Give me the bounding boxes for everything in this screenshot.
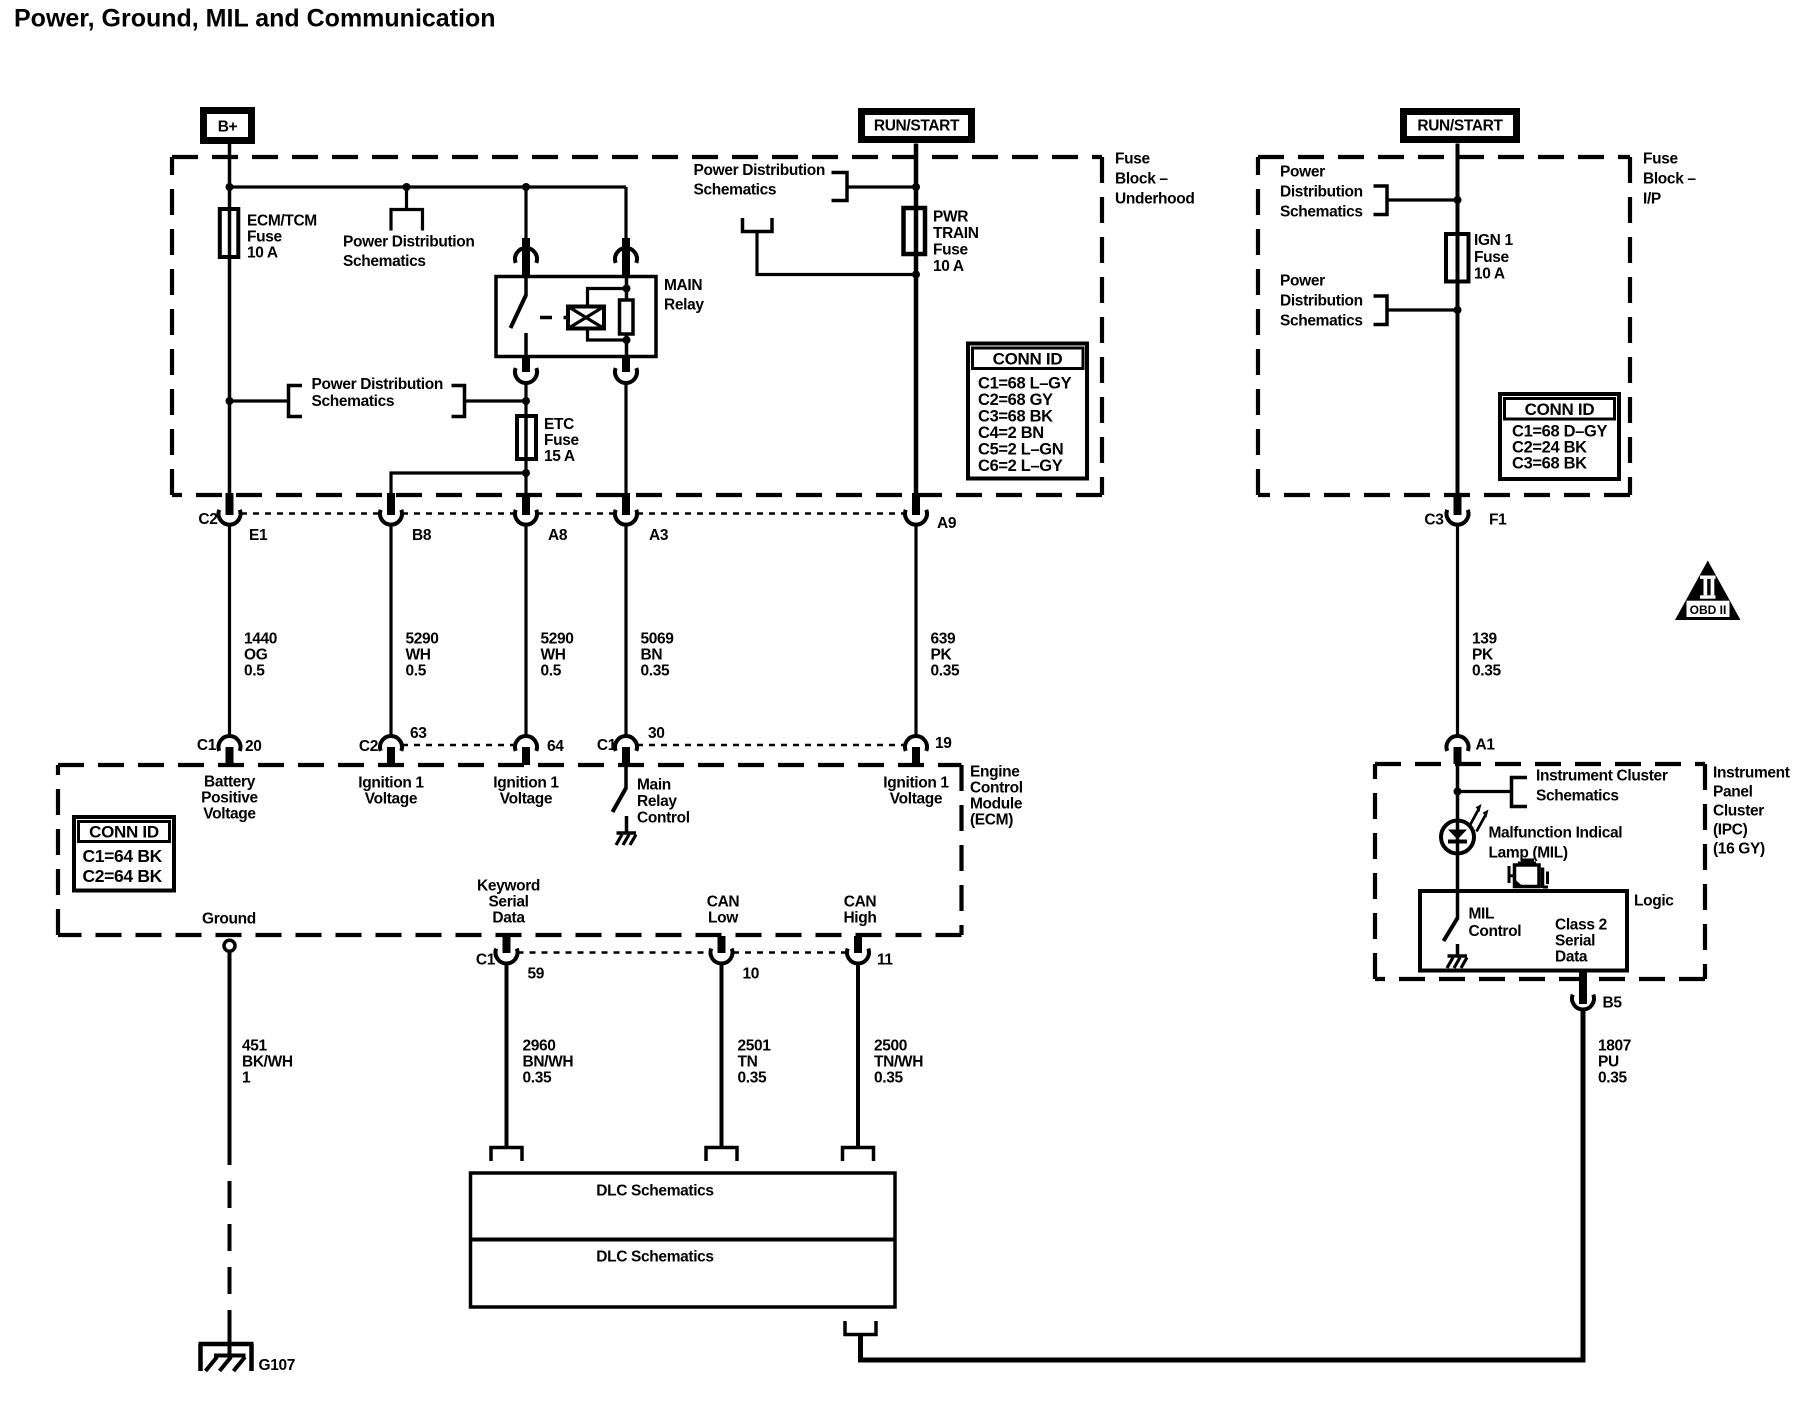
label wire 139 PK 0.35: [1472, 631, 1501, 680]
svg-text:Engine: Engine: [970, 764, 1020, 781]
connector B8: [380, 493, 402, 525]
wire bus to relay pin 2: [624, 187, 627, 240]
svg-text:C6=2 L–GY: C6=2 L–GY: [978, 457, 1063, 475]
svg-text:10 A: 10 A: [1474, 266, 1505, 283]
svg-text:Control: Control: [1469, 923, 1522, 940]
wire col1 to left bracket: [230, 399, 289, 402]
DLC Schematics box: [471, 1173, 896, 1307]
wire PWR TRAIN fuse down to connector A9: [914, 254, 919, 494]
svg-text:MIL: MIL: [1469, 906, 1495, 923]
connector B5: [1572, 970, 1594, 1009]
wire bracket2 to col6: [1387, 308, 1458, 311]
node MIL tap: [1454, 788, 1462, 796]
label ETC Fuse 15 A: [544, 416, 580, 465]
svg-text:2500: 2500: [874, 1038, 907, 1055]
svg-text:Instrument Cluster: Instrument Cluster: [1536, 768, 1668, 785]
svg-text:A9: A9: [937, 515, 957, 532]
node resistor bottom: [623, 336, 631, 344]
svg-text:C4=2 BN: C4=2 BN: [978, 424, 1044, 442]
DLC terminal cup (10): [706, 1148, 737, 1162]
svg-text:0.5: 0.5: [406, 663, 427, 680]
svg-text:5290: 5290: [541, 631, 574, 648]
label wire 451 BK/WH 1: [242, 1038, 293, 1087]
label wire 1440 OG 0.5: [244, 631, 277, 680]
connector C1/20: [219, 736, 241, 765]
connector C1/30: [615, 736, 637, 765]
wire coil to resistor bottom: [588, 329, 627, 341]
svg-text:Power Distribution: Power Distribution: [343, 234, 474, 251]
svg-text:C1: C1: [197, 737, 217, 754]
svg-text:E1: E1: [249, 527, 268, 544]
svg-text:639: 639: [931, 631, 957, 648]
wire tap to instrument cluster bracket: [1458, 790, 1512, 793]
connector A8: [515, 493, 537, 525]
svg-text:ETC: ETC: [544, 416, 574, 433]
svg-text:Schematics: Schematics: [1280, 204, 1363, 221]
wire bus to ECM/TCM fuse: [228, 187, 232, 209]
wire 10 to DLC: [720, 963, 724, 1147]
label Ignition 1 Voltage (19): [883, 775, 949, 808]
DLC terminal cup (59): [491, 1148, 522, 1162]
svg-text:Cluster: Cluster: [1713, 803, 1764, 820]
label Engine Control Module (ECM): [970, 764, 1023, 829]
svg-text:OBD II: OBD II: [1690, 603, 1727, 617]
svg-text:1440: 1440: [244, 631, 277, 648]
svg-text:RUN/START: RUN/START: [874, 118, 960, 135]
label CAN High: [843, 894, 876, 927]
svg-text:C1: C1: [476, 952, 496, 969]
DLC terminal cup (11): [843, 1148, 874, 1162]
svg-text:C1=64 BK: C1=64 BK: [83, 846, 163, 866]
wire bracket to col5: [847, 185, 916, 188]
svg-text:(IPC): (IPC): [1713, 822, 1748, 839]
svg-text:0.35: 0.35: [1598, 1070, 1627, 1087]
svg-text:ECM/TCM: ECM/TCM: [247, 213, 317, 230]
svg-text:I/P: I/P: [1643, 191, 1661, 208]
connector A1: [1447, 736, 1469, 764]
svg-text:Control: Control: [637, 810, 690, 827]
svg-text:C2=68 GY: C2=68 GY: [978, 391, 1053, 409]
label Fuse Block - I/P: [1643, 151, 1696, 208]
label wire 5069 BN 0.35: [641, 631, 675, 680]
svg-text:63: 63: [410, 725, 427, 742]
label wire 2960 BN/WH 0.35: [523, 1038, 574, 1087]
svg-text:MAIN: MAIN: [664, 277, 702, 294]
svg-text:C1: C1: [597, 737, 617, 754]
svg-text:Ignition 1: Ignition 1: [358, 775, 424, 792]
label Ignition 1 Voltage (64): [493, 775, 559, 808]
DLC bottom terminal cup: [845, 1321, 876, 1335]
offpage bracket left (Power Distribution Schematics mid): [289, 386, 303, 417]
label Instrument Cluster Schematics: [1536, 768, 1668, 805]
fuse PWR TRAIN 10 A: [904, 208, 926, 254]
offpage bracket (PD schematics I/P bottom): [1374, 296, 1388, 325]
svg-text:451: 451: [242, 1038, 268, 1055]
svg-text:Schematics: Schematics: [1536, 788, 1619, 805]
wire junction to connector A8: [524, 473, 527, 494]
node bus at fork: [403, 183, 411, 191]
wire ECM/TCM fuse down to connector E1: [228, 257, 232, 494]
wire 59 to DLC: [505, 963, 509, 1147]
power symbol RUN/START (I/P): [1404, 112, 1517, 140]
connector C2/63: [380, 736, 402, 765]
svg-text:Data: Data: [1555, 949, 1588, 966]
harness dashed line row2: [402, 744, 905, 747]
svg-text:0.35: 0.35: [931, 663, 960, 680]
offpage bracket right (Power Distribution Schematics mid): [452, 386, 465, 417]
wire B8 to ECM pin 63: [389, 525, 392, 737]
wire 11 to DLC: [856, 963, 860, 1147]
CONN ID table (ECM): [74, 817, 174, 891]
svg-text:Serial: Serial: [488, 894, 528, 911]
svg-text:0.35: 0.35: [874, 1070, 903, 1087]
wire junction to B8 drop: [391, 473, 526, 494]
label wire 5290 WH 0.5: [406, 631, 439, 680]
wire bracket1 to col6: [1387, 198, 1458, 201]
icon check engine: [1509, 860, 1548, 888]
wire bus to relay pin 1: [524, 187, 527, 240]
svg-text:Instrument: Instrument: [1713, 765, 1790, 782]
svg-text:C5=2 L–GN: C5=2 L–GN: [978, 441, 1063, 459]
svg-text:Malfunction Indical: Malfunction Indical: [1489, 825, 1623, 842]
svg-text:10 A: 10 A: [933, 258, 964, 275]
svg-text:Voltage: Voltage: [890, 791, 943, 808]
svg-text:Ground: Ground: [202, 911, 256, 928]
svg-text:59: 59: [528, 966, 545, 983]
node ETC junction: [522, 469, 530, 477]
label CAN Low: [707, 894, 740, 927]
connector 10: [711, 936, 733, 963]
label Instrument Panel Cluster (IPC) (16 GY): [1713, 765, 1790, 858]
fuse block I/P dashed enclosure: [1258, 157, 1630, 495]
offpage bracket (PD schematics I/P top): [1374, 186, 1388, 215]
svg-text:64: 64: [547, 738, 564, 755]
label MIL Control: [1469, 906, 1522, 941]
wire F1 to IPC pin A1: [1456, 525, 1459, 737]
svg-text:Power, Ground, MIL and Communi: Power, Ground, MIL and Communication: [14, 5, 496, 33]
svg-text:BN: BN: [641, 647, 663, 664]
ground (IPC internal): [1447, 956, 1467, 968]
svg-text:DLC Schematics: DLC Schematics: [596, 1183, 713, 1200]
svg-text:Power: Power: [1280, 273, 1325, 290]
svg-text:Schematics: Schematics: [1280, 313, 1363, 330]
label wire 2501 TN 0.35: [738, 1038, 772, 1087]
svg-text:IGN 1: IGN 1: [1474, 232, 1513, 249]
svg-text:C3=68 BK: C3=68 BK: [978, 408, 1053, 426]
label Fuse Block - Underhood: [1115, 151, 1195, 208]
svg-text:Panel: Panel: [1713, 784, 1753, 801]
svg-text:Block –: Block –: [1643, 171, 1696, 188]
svg-text:Fuse: Fuse: [933, 242, 969, 259]
svg-text:Main: Main: [637, 777, 671, 794]
wire ETC fuse to junction: [524, 459, 527, 473]
wire ground dashed segment: [228, 1138, 232, 1332]
relay mechanical link dash: [540, 316, 552, 320]
wire E1 to ECM pin 20: [228, 525, 231, 737]
svg-text:Schematics: Schematics: [343, 253, 426, 270]
svg-text:Fuse: Fuse: [1115, 151, 1151, 168]
svg-text:PK: PK: [931, 647, 953, 664]
svg-text:Fuse: Fuse: [247, 229, 283, 246]
ECM dashed enclosure: [58, 765, 962, 935]
node fork2 tap: [912, 271, 920, 279]
wire right bracket to col3: [465, 399, 527, 402]
label wire 1807 PU 0.35: [1598, 1038, 1631, 1087]
svg-text:15 A: 15 A: [544, 448, 575, 465]
svg-text:30: 30: [648, 725, 665, 742]
offpage fork (below PWR label): [743, 218, 917, 275]
lamp MIL LED: [1441, 821, 1474, 855]
ground terminal ring: [224, 940, 235, 951]
svg-text:RUN/START: RUN/START: [1417, 118, 1503, 135]
svg-text:WH: WH: [406, 647, 431, 664]
svg-text:TRAIN: TRAIN: [933, 225, 979, 242]
svg-text:CONN ID: CONN ID: [89, 823, 159, 842]
svg-text:10 A: 10 A: [247, 245, 278, 262]
svg-text:Underhood: Underhood: [1115, 191, 1195, 208]
offpage bracket (Instrument Cluster Schematics): [1512, 778, 1528, 807]
svg-text:WH: WH: [541, 647, 566, 664]
svg-text:C2=64 BK: C2=64 BK: [83, 866, 163, 886]
node bus at B+: [226, 183, 234, 191]
svg-text:Ignition 1: Ignition 1: [493, 775, 559, 792]
svg-text:139: 139: [1472, 631, 1498, 648]
wire RUN/START to PWR TRAIN fuse: [914, 144, 919, 209]
node IP tap 1: [1454, 196, 1462, 204]
symbol OBD II: [1675, 561, 1741, 621]
label wire 2500 TN/WH 0.35: [874, 1038, 923, 1087]
wire ground solid segment: [228, 953, 232, 1139]
svg-text:Power: Power: [1280, 164, 1325, 181]
switch MIL control: [1444, 854, 1458, 955]
connector C1/59: [495, 936, 517, 963]
node IP tap 2: [1454, 306, 1462, 314]
node col3 PD tap: [522, 397, 530, 405]
wire relay pin4 down to connector A3: [624, 382, 627, 494]
CONN ID table (I/P): [1500, 394, 1619, 479]
svg-text:Schematics: Schematics: [312, 393, 395, 410]
label Main Relay Control: [637, 777, 690, 827]
svg-text:5290: 5290: [406, 631, 439, 648]
svg-text:C3=68 BK: C3=68 BK: [1512, 455, 1587, 473]
svg-text:Positive: Positive: [201, 790, 258, 807]
svg-text:PWR: PWR: [933, 209, 968, 226]
node resistor top: [623, 285, 631, 293]
node col1 PD tap: [226, 397, 234, 405]
label Power Distribution Schematics (mid): [312, 376, 443, 410]
connector A9: [905, 493, 927, 525]
svg-text:F1: F1: [1489, 512, 1507, 529]
svg-text:0.35: 0.35: [1472, 663, 1501, 680]
relay output stubs and arcs: [522, 357, 530, 373]
wire A8 to ECM pin 64: [524, 525, 527, 737]
label Power Distribution Schematics (I/P bottom): [1280, 273, 1363, 330]
svg-text:Fuse: Fuse: [1643, 151, 1679, 168]
wire DLC to B5: [861, 1008, 1584, 1360]
power symbol RUN/START (underhood): [862, 112, 972, 140]
svg-text:Logic: Logic: [1634, 893, 1674, 910]
svg-text:Power Distribution: Power Distribution: [312, 376, 443, 393]
svg-text:Voltage: Voltage: [203, 806, 256, 823]
svg-text:Fuse: Fuse: [544, 432, 580, 449]
CONN ID table (underhood): [968, 344, 1087, 479]
svg-text:Module: Module: [970, 796, 1023, 813]
label Battery Positive Voltage: [201, 774, 258, 823]
relay MAIN Relay box: [496, 277, 656, 357]
wire A9 to ECM pin 19: [914, 525, 917, 737]
LED light arrows: [1470, 804, 1489, 832]
connector 64: [515, 736, 537, 765]
svg-text:Voltage: Voltage: [500, 791, 553, 808]
svg-text:19: 19: [935, 735, 952, 752]
svg-text:Serial: Serial: [1555, 933, 1595, 950]
label Malfunction Indical Lamp (MIL): [1489, 825, 1623, 862]
wire RUN/START I/P to IGN 1 fuse: [1456, 144, 1460, 235]
connector 11: [847, 936, 869, 963]
relay switch contact: [511, 277, 527, 357]
svg-text:5069: 5069: [641, 631, 675, 648]
svg-text:Low: Low: [708, 910, 739, 927]
svg-text:Schematics: Schematics: [694, 182, 777, 199]
connector arc relay pin 1: [515, 248, 537, 263]
svg-text:Control: Control: [970, 780, 1023, 797]
wire coil to resistor top: [588, 289, 627, 307]
svg-text:C3: C3: [1424, 512, 1444, 529]
label Class 2 Serial Data: [1555, 917, 1607, 966]
svg-text:A1: A1: [1476, 737, 1496, 754]
svg-text:Class 2: Class 2: [1555, 917, 1607, 934]
fuse block underhood dashed enclosure: [172, 157, 1102, 495]
label Power Distribution Schematics (underhood right): [694, 162, 825, 199]
relay coil (box with X): [564, 307, 605, 329]
svg-text:Battery: Battery: [204, 774, 256, 791]
svg-text:Relay: Relay: [664, 297, 704, 314]
label IGN 1 Fuse 10 A: [1474, 232, 1513, 283]
svg-text:2501: 2501: [738, 1038, 772, 1055]
svg-text:10: 10: [743, 966, 760, 983]
svg-text:CONN ID: CONN ID: [993, 350, 1063, 369]
wire B+ to bus: [228, 144, 232, 187]
node PWR bracket tap: [912, 183, 920, 191]
connector C2/E1: [219, 493, 241, 525]
svg-text:0.35: 0.35: [738, 1070, 767, 1087]
svg-text:Ignition 1: Ignition 1: [883, 775, 949, 792]
power symbol B+: [204, 111, 252, 141]
svg-text:CAN: CAN: [707, 894, 740, 911]
svg-text:G107: G107: [259, 1357, 296, 1374]
node bus at relay left: [522, 183, 530, 191]
wire IGN 1 fuse down to connector F1: [1456, 282, 1460, 495]
fuse IGN 1 10 A: [1446, 234, 1469, 282]
svg-text:TN: TN: [738, 1054, 758, 1071]
svg-text:Keyword: Keyword: [477, 878, 540, 895]
svg-text:1: 1: [242, 1070, 251, 1087]
offpage bracket (PD schematics underhood right): [832, 173, 848, 201]
logic box: [1420, 891, 1627, 971]
svg-text:PK: PK: [1472, 647, 1494, 664]
svg-text:B5: B5: [1603, 995, 1623, 1012]
svg-text:BN/WH: BN/WH: [523, 1054, 574, 1071]
svg-text:11: 11: [877, 952, 893, 969]
svg-text:B+: B+: [218, 119, 238, 136]
ground (ECM internal): [616, 833, 636, 845]
label ECM/TCM Fuse 10 A: [247, 213, 317, 262]
svg-text:Voltage: Voltage: [365, 791, 418, 808]
label wire 639 PK 0.35: [931, 631, 960, 680]
svg-text:C2: C2: [359, 738, 378, 755]
svg-text:(ECM): (ECM): [970, 812, 1013, 829]
connector arc relay pin 3: [515, 368, 537, 383]
svg-text:2960: 2960: [523, 1038, 556, 1055]
svg-text:20: 20: [245, 738, 262, 755]
label Keyword Serial Data: [477, 878, 540, 927]
ground G107 symbol: [199, 1332, 254, 1371]
harness dotted line row1: [241, 512, 905, 515]
svg-text:DLC Schematics: DLC Schematics: [596, 1249, 713, 1266]
svg-text:Fuse: Fuse: [1474, 249, 1510, 266]
label Power Distribution Schematics (I/P top): [1280, 164, 1363, 221]
svg-text:CONN ID: CONN ID: [1525, 400, 1595, 419]
connector 19: [905, 736, 927, 765]
svg-text:A8: A8: [548, 527, 568, 544]
svg-text:0.5: 0.5: [244, 663, 265, 680]
connector arc relay pin 4: [615, 368, 637, 383]
svg-text:Relay: Relay: [637, 793, 677, 810]
svg-text:CAN: CAN: [844, 894, 877, 911]
wire A1 into IPC: [1456, 765, 1460, 822]
svg-text:PU: PU: [1598, 1054, 1619, 1071]
svg-text:TN/WH: TN/WH: [874, 1054, 923, 1071]
label wire 5290 WH 0.5 (2): [541, 631, 574, 680]
svg-text:0.35: 0.35: [641, 663, 670, 680]
svg-text:0.5: 0.5: [541, 663, 562, 680]
label Ignition 1 Voltage (63): [358, 775, 424, 808]
connector C3/F1: [1447, 493, 1469, 525]
svg-text:A3: A3: [649, 527, 669, 544]
svg-text:Distribution: Distribution: [1280, 184, 1363, 201]
resistor in relay: [620, 300, 634, 334]
svg-text:BK/WH: BK/WH: [242, 1054, 293, 1071]
label PWR TRAIN Fuse 10 A: [933, 209, 979, 276]
svg-text:OG: OG: [244, 647, 268, 664]
svg-text:Power Distribution: Power Distribution: [694, 162, 825, 179]
svg-text:Block –: Block –: [1115, 171, 1168, 188]
fuse ECM/TCM 10 A: [220, 209, 239, 257]
wire relay pin3 down to ETC fuse: [524, 382, 527, 416]
svg-text:0.35: 0.35: [523, 1070, 552, 1087]
svg-text:Data: Data: [492, 910, 525, 927]
IPC dashed enclosure: [1375, 764, 1705, 979]
svg-text:(16 GY): (16 GY): [1713, 841, 1765, 858]
svg-text:B8: B8: [412, 527, 432, 544]
svg-text:C2: C2: [198, 511, 217, 528]
wire A3 to ECM pin 30: [624, 525, 627, 737]
wire B+ feed bus: [230, 185, 627, 188]
label MAIN Relay: [664, 277, 704, 314]
switch main relay control: [613, 765, 627, 832]
svg-text:1807: 1807: [1598, 1038, 1631, 1055]
offpage fork to Power Distribution Schematics: [391, 187, 423, 231]
connector A3: [615, 493, 637, 525]
label Power Distribution Schematics (top): [343, 234, 474, 271]
svg-text:C1=68 L–GY: C1=68 L–GY: [978, 375, 1072, 393]
svg-text:Distribution: Distribution: [1280, 293, 1363, 310]
svg-text:High: High: [843, 910, 876, 927]
harness dotted line row3: [518, 951, 847, 954]
fuse ETC 15 A: [517, 416, 536, 459]
connector arc relay pin 2: [615, 248, 637, 263]
